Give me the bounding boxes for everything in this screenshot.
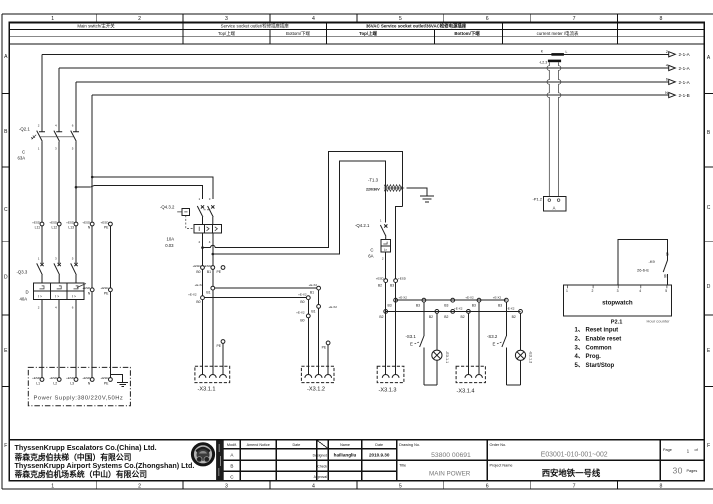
svg-text:F: F [707, 443, 710, 449]
svg-text:PE: PE [216, 270, 221, 274]
svg-text:Hour counter: Hour counter [647, 319, 671, 324]
svg-text:ThyssenKrupp Airport Systems C: ThyssenKrupp Airport Systems Co.(Zhongsh… [15, 461, 195, 470]
svg-text:B3: B3 [416, 304, 420, 308]
svg-text:-L2.3: -L2.3 [539, 61, 547, 65]
svg-text:C: C [370, 248, 373, 253]
connector B0 tap [201, 296, 205, 300]
diag leader to N [77, 284, 86, 288]
svg-text:1、 Reset input: 1、 Reset input [575, 328, 619, 334]
svg-text:53800 00691: 53800 00691 [431, 452, 471, 459]
terminal circles L11 L12 L13 N PE [32, 220, 112, 229]
svg-text:PE: PE [104, 226, 109, 230]
svg-text:C: C [707, 205, 711, 211]
power supply box [28, 367, 130, 405]
svg-text:Service socket outlet/检修插座插座: Service socket outlet/检修插座插座 [221, 23, 290, 30]
column numbers top [51, 16, 662, 22]
svg-text:stopwatch: stopwatch [602, 300, 633, 307]
svg-text:Pages: Pages [687, 469, 698, 473]
svg-text:B0: B0 [196, 270, 200, 274]
svg-text:E: E [410, 341, 413, 346]
svg-text:63A: 63A [18, 156, 26, 161]
wire PE stub to X3.1.1 [222, 343, 224, 374]
svg-text:+ESD: +ESD [66, 376, 75, 380]
svg-text:B3: B3 [388, 304, 392, 308]
svg-text:-Q3.3: -Q3.3 [17, 270, 28, 275]
Q4.2.1 contact [380, 224, 387, 239]
T1.3 secondary to ground [406, 188, 427, 196]
svg-text:5、 Start/Stop: 5、 Start/Stop [575, 363, 615, 369]
svg-text:B2: B2 [461, 315, 465, 319]
column ticks bottom band [96, 481, 617, 489]
svg-text:+E-X2: +E-X2 [399, 295, 408, 299]
svg-text:2010.9.30: 2010.9.30 [369, 453, 390, 458]
wire B0 feeder to X3.1.2 [204, 297, 306, 299]
svg-text:C: C [4, 207, 8, 213]
Q4.2.1 trip box [381, 240, 391, 252]
B3 bus connectors [394, 298, 398, 302]
wire PE drop [109, 226, 111, 378]
svg-text:10A: 10A [167, 236, 175, 241]
svg-text:40A: 40A [20, 297, 28, 302]
connector B2 [384, 279, 388, 283]
svg-text:B: B [230, 464, 233, 469]
T1.3 windings [384, 187, 404, 189]
svg-text:I >: I > [38, 295, 42, 299]
Q3.3 trip unit box [34, 283, 85, 300]
svg-text:6: 6 [486, 16, 489, 22]
service socket connector row B0 B1 PE [193, 248, 225, 274]
svg-text:3、 Common: 3、 Common [575, 345, 612, 351]
CT sense wire left with hops [547, 62, 549, 196]
svg-text:1: 1 [51, 483, 54, 489]
svg-text:2-1-A: 2-1-A [679, 52, 691, 57]
svg-text:Power Supply:380/220V,50Hz: Power Supply:380/220V,50Hz [34, 396, 124, 402]
connector B0 plug X3.1.2 [306, 314, 310, 318]
svg-text:L11: L11 [35, 226, 41, 230]
ground symbol at T1.3 [420, 196, 434, 202]
svg-text:Page: Page [663, 448, 672, 452]
svg-text:Amend Notice: Amend Notice [247, 443, 270, 447]
wire stopwatch pin3 loop [618, 239, 667, 285]
svg-text:2-1-A: 2-1-A [679, 66, 691, 71]
wire N tap to RCD right pole [92, 177, 213, 199]
svg-text:B3: B3 [390, 284, 394, 288]
svg-text:36VAC Service socket outlet/36: 36VAC Service socket outlet/36VAC检修电源插座 [366, 23, 467, 30]
svg-text:B2: B2 [429, 315, 433, 319]
stopwatch terminal legend [575, 328, 622, 369]
svg-text:8: 8 [660, 16, 663, 22]
svg-text:Bottom/下端: Bottom/下端 [454, 30, 480, 37]
lamp E3.1.2 [515, 313, 532, 385]
bus line L3 [76, 81, 669, 83]
svg-text:+E-X2: +E-X2 [506, 307, 515, 311]
svg-text:Title: Title [399, 464, 406, 468]
ammeter P1.2 [532, 196, 566, 211]
svg-text:C: C [22, 150, 25, 155]
ground wire from PE [110, 375, 122, 383]
svg-text:4: 4 [312, 16, 315, 22]
lamp E3.1.1 [432, 313, 449, 385]
T1.3 secondary output jog [396, 207, 403, 279]
svg-text:+E-X2: +E-X2 [493, 295, 502, 299]
svg-text:+E-X2: +E-X2 [195, 283, 204, 287]
svg-text:6: 6 [486, 483, 489, 489]
svg-text:D: D [707, 284, 711, 290]
svg-text:2: 2 [138, 483, 141, 489]
svg-text:44: 44 [663, 274, 667, 278]
svg-text:+ESD: +ESD [398, 276, 407, 280]
svg-text:+ESD: +ESD [100, 376, 109, 380]
svg-text:Drawing No.: Drawing No. [399, 443, 420, 447]
svg-text:3: 3 [617, 289, 619, 293]
svg-text:Top/上端: Top/上端 [218, 30, 236, 37]
circuit breaker Q3.3 [17, 256, 87, 309]
switch S3.2 [487, 302, 506, 385]
node tap on L3 to RCD [75, 186, 78, 189]
svg-text:A: A [553, 205, 556, 210]
main switch Q2.1 [18, 124, 80, 161]
svg-text:+ESD: +ESD [100, 286, 109, 290]
svg-text:-X3.1.1: -X3.1.1 [198, 387, 216, 393]
svg-text:-Q2.1: -Q2.1 [19, 127, 30, 132]
svg-text:+E-X2: +E-X2 [329, 305, 338, 309]
wire B2 drop [385, 283, 387, 375]
svg-text:Approval: Approval [314, 475, 328, 479]
wire B1 drop to X3.1.1 [212, 269, 214, 374]
svg-text:B2: B2 [512, 315, 516, 319]
RCD pole 1 contact [197, 205, 204, 224]
svg-text:-X3.1.2: -X3.1.2 [307, 387, 325, 393]
svg-text:4、 Prog.: 4、 Prog. [575, 354, 602, 360]
svg-text:+E-X2: +E-X2 [188, 292, 197, 296]
svg-text:4: 4 [639, 289, 641, 293]
svg-text:-K9: -K9 [649, 259, 656, 264]
svg-text:F: F [4, 443, 7, 449]
svg-text:Project Name: Project Name [490, 464, 513, 468]
svg-text:L: L [566, 50, 568, 54]
svg-text:I >: I > [55, 295, 59, 299]
wire lamp2 bottom loop [506, 384, 520, 386]
revision table grid [224, 449, 705, 472]
svg-text:Modif.: Modif. [227, 443, 237, 447]
wire X3.1.4 left drop from B2 [467, 313, 469, 374]
svg-text:PE: PE [104, 291, 109, 295]
svg-text:26-6-E: 26-6-E [637, 267, 649, 272]
black bar [216, 441, 224, 481]
contact K9 [637, 252, 669, 285]
svg-text:30: 30 [673, 466, 683, 476]
test button [182, 208, 190, 215]
svg-text:+ESD: +ESD [203, 264, 212, 268]
svg-text:D: D [26, 290, 29, 295]
logo [192, 444, 213, 465]
switch S3.1 [406, 302, 424, 385]
svg-text:2、 Enable reset: 2、 Enable reset [575, 337, 622, 343]
Q2.1 actuator [31, 135, 36, 139]
CT sense wire right with hops [559, 62, 561, 196]
svg-text:B2: B2 [379, 315, 383, 319]
svg-text:1: 1 [51, 16, 54, 22]
svg-text:Main switch/主开关: Main switch/主开关 [77, 23, 115, 30]
svg-text:D: D [4, 275, 8, 281]
Q2.1 pole 1 [37, 131, 45, 142]
svg-text:L1: L1 [36, 381, 40, 385]
Q2.1 pole 2 [54, 131, 62, 142]
svg-text:-S3.1: -S3.1 [406, 334, 417, 339]
bus line L2 [59, 67, 669, 69]
connector PE stub X3.1.1 [221, 340, 225, 344]
svg-text:8: 8 [660, 483, 663, 489]
svg-text:-E3.1.1: -E3.1.1 [445, 351, 449, 363]
svg-text:B1: B1 [311, 310, 315, 314]
wire B0 drop X3.1.2 [307, 300, 309, 314]
node RCD left output [201, 246, 204, 249]
wire lamp1 bottom loop [424, 384, 437, 386]
svg-text:ThyssenKrupp Escalators Co.(Ch: ThyssenKrupp Escalators Co.(China) Ltd. [15, 443, 157, 452]
Q3.3 pole 1 [37, 263, 44, 283]
svg-text:-P1.2: -P1.2 [532, 196, 542, 201]
svg-text:Designed: Designed [313, 453, 327, 457]
connector B1 into X3.1.2 [317, 286, 321, 290]
svg-text:PE: PE [216, 344, 221, 348]
svg-text:+ESD: +ESD [82, 220, 91, 224]
svg-text:N: N [665, 90, 668, 95]
svg-text:+E-X2: +E-X2 [465, 295, 474, 299]
Q3.3 pole 2 [54, 263, 61, 283]
bus destination labels [679, 52, 691, 98]
svg-text:B3: B3 [498, 304, 502, 308]
svg-text:B0: B0 [300, 318, 304, 322]
svg-text:B1: B1 [207, 270, 211, 274]
svg-text:+ESD: +ESD [32, 220, 41, 224]
svg-text:B3: B3 [472, 304, 476, 308]
svg-text:Date: Date [375, 443, 383, 447]
Q2.1 pole 3 [71, 131, 79, 142]
svg-text:3: 3 [225, 483, 228, 489]
bus B2 36VAC [386, 310, 521, 312]
breaker Q4.2.1 [355, 219, 391, 279]
wire B3 drop [395, 283, 397, 375]
svg-text:+ESD: +ESD [193, 264, 202, 268]
row letters right [707, 55, 711, 449]
svg-text:-T1.3: -T1.3 [368, 177, 379, 182]
wire phase L2 drop [58, 68, 60, 378]
bus B3 36VAC [396, 299, 507, 301]
wire staircase B : RCD right to transformer left [213, 161, 386, 254]
drawing no / title cells [487, 440, 660, 481]
arrow 2-1-B lineN [669, 93, 676, 98]
svg-text:6A: 6A [368, 254, 373, 259]
svg-text:7: 7 [573, 16, 576, 22]
svg-text:I >: I > [72, 295, 76, 299]
svg-text:+ESD: +ESD [49, 220, 58, 224]
svg-text:3: 3 [225, 16, 228, 22]
svg-text:B2: B2 [444, 315, 448, 319]
connector B0 into X3.1.2 [306, 296, 310, 300]
arrow 2-1-A line4 [669, 65, 676, 70]
row letters left [4, 54, 8, 449]
svg-text:L12: L12 [52, 226, 58, 230]
svg-text:+E-X2: +E-X2 [454, 307, 463, 311]
svg-text:Order No.: Order No. [490, 443, 507, 447]
row ticks left band [2, 94, 9, 387]
B2 bus connectors [384, 310, 388, 314]
arrow 2-1-A line6 [669, 79, 676, 84]
svg-text:P2.1: P2.1 [611, 319, 623, 325]
svg-text:4: 4 [312, 483, 315, 489]
Q3.3 pole 3 [71, 263, 78, 283]
svg-text:hailiangliu: hailiangliu [334, 453, 357, 458]
svg-text:Check: Check [317, 465, 327, 469]
RCD pole 2 contact [208, 205, 215, 224]
svg-text:+ESD: +ESD [82, 286, 91, 290]
wire L3 tap to RCD left pole (jog at N crossing) [76, 185, 203, 199]
svg-text:-X3.1.4: -X3.1.4 [457, 389, 475, 395]
wire B1 drop X3.1.2 [318, 290, 320, 305]
svg-text:+E-X2: +E-X2 [296, 311, 305, 315]
svg-text:-Q4.3.2: -Q4.3.2 [160, 204, 175, 209]
svg-text:2: 2 [138, 16, 141, 22]
RCD Q4.3.2 [160, 197, 221, 254]
bus end wire numbers [665, 49, 669, 95]
svg-text:PE: PE [322, 345, 327, 349]
svg-text:蒂森克虏伯机场系统（中山）有限公司: 蒂森克虏伯机场系统（中山）有限公司 [15, 469, 148, 479]
header table row1 labels [77, 23, 466, 30]
arrow 2-1-A line2 [669, 52, 676, 57]
svg-text:-S3.2: -S3.2 [487, 334, 498, 339]
svg-text:+E-X2: +E-X2 [298, 292, 307, 296]
svg-text:L3: L3 [70, 381, 74, 385]
wire staircase A : RCD left to transformer right [203, 151, 403, 247]
bus line L1 [42, 53, 669, 55]
N / PE connector circles above power supply [82, 286, 112, 295]
svg-text:Name: Name [340, 443, 350, 447]
hour counter stopwatch P2.1 [563, 285, 671, 325]
svg-text:1: 1 [566, 289, 568, 293]
svg-text:Top/上端: Top/上端 [359, 30, 377, 37]
svg-text:+ESD: +ESD [82, 376, 91, 380]
svg-text:43: 43 [665, 252, 669, 256]
svg-text:5: 5 [399, 16, 402, 22]
svg-text:2: 2 [592, 289, 594, 293]
svg-text:-Q4.2.1: -Q4.2.1 [355, 223, 370, 228]
svg-text:5: 5 [399, 483, 402, 489]
svg-text:Bottom/下端: Bottom/下端 [286, 30, 311, 37]
Q2.1 linkage [40, 136, 74, 138]
svg-text:+ESD: +ESD [376, 276, 385, 280]
svg-text:PE: PE [104, 381, 109, 385]
test dashed link [186, 215, 194, 228]
node RCD right output [212, 253, 215, 256]
svg-text:0.03: 0.03 [165, 243, 174, 248]
header table row2 labels [218, 30, 579, 37]
ground symbol [117, 382, 128, 386]
wire B1 feeder to X3.1.2 [215, 287, 317, 289]
thermal release marks [40, 286, 79, 289]
connector B3 [394, 279, 398, 283]
svg-text:L2: L2 [53, 381, 57, 385]
svg-text:B0: B0 [300, 300, 304, 304]
svg-text:西安地铁一号线: 西安地铁一号线 [542, 468, 601, 478]
magnetic release marks I> [38, 295, 76, 299]
svg-text:220/36V: 220/36V [366, 188, 380, 192]
svg-text:+ESD: +ESD [49, 376, 58, 380]
svg-text:+E-X2: +E-X2 [309, 283, 318, 287]
bus line N [92, 94, 669, 96]
power terminals L1 L2 L3 N PE [40, 378, 44, 382]
wire phase L3 drop [75, 82, 77, 378]
row ticks right band [704, 94, 713, 387]
node tap on N to RCD [91, 176, 94, 179]
svg-text:B2: B2 [378, 284, 382, 288]
terminal strip X3.1.4 [456, 366, 485, 394]
connector B1 plug X3.1.2 [317, 305, 321, 309]
header table grid [9, 30, 704, 44]
svg-text:E03001-010-001~002: E03001-010-001~002 [541, 452, 608, 459]
terminal strip X3.1.1 [195, 366, 230, 392]
svg-text:-X3.1.3: -X3.1.3 [379, 388, 397, 394]
connector PE stub X3.1.2 [326, 341, 330, 345]
svg-text:B3: B3 [444, 304, 448, 308]
svg-text:2-1-A: 2-1-A [679, 80, 691, 85]
current transformer L2.3 [539, 50, 567, 197]
svg-text:7: 7 [573, 483, 576, 489]
svg-text:I>: I> [384, 248, 387, 252]
column numbers bottom [51, 483, 662, 489]
svg-text:B1: B1 [206, 291, 210, 295]
RCD trip box [194, 225, 221, 233]
svg-text:E: E [493, 341, 496, 346]
svg-text:current meter /电流表: current meter /电流表 [537, 30, 579, 37]
connector B1 tap [211, 286, 215, 290]
svg-text:Date: Date [293, 443, 301, 447]
RCD outputs down [203, 233, 213, 254]
transformer T1.3 [366, 177, 434, 278]
svg-text:-E3.1.2: -E3.1.2 [529, 351, 533, 363]
svg-text:2-1-B: 2-1-B [679, 93, 690, 98]
wire B0 drop to X3.1.1 [202, 269, 204, 374]
svg-text:B0: B0 [196, 300, 200, 304]
svg-text:5: 5 [665, 289, 667, 293]
pole link dashed [204, 209, 211, 211]
column ticks top band [96, 14, 617, 23]
svg-text:L13: L13 [68, 226, 74, 230]
terminal strip X3.1.3 [377, 366, 404, 393]
svg-text:+ESD: +ESD [32, 376, 41, 380]
wire X3.1.4 right drop from B3 [478, 302, 480, 374]
svg-text:MAIN POWER: MAIN POWER [429, 471, 471, 478]
svg-text:+ESD: +ESD [100, 220, 109, 224]
terminal strip X3.1.2 [301, 366, 334, 392]
pin ticks [568, 285, 667, 288]
wire N drop [91, 95, 93, 378]
wire phase L1 drop [41, 54, 43, 377]
svg-text:+ESD: +ESD [66, 220, 75, 224]
svg-text:B1: B1 [310, 291, 314, 295]
